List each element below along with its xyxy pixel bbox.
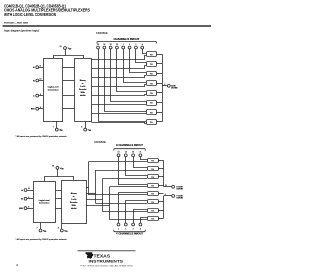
wire TG1 output to bus CD4052B	[158, 168, 164, 170]
wire TG1 output to common bus CD4051B	[157, 63, 163, 65]
pin Y channel 0 in/out CD4052B	[117, 223, 120, 226]
svg-text:11: 11	[139, 152, 141, 154]
wire input B to conversion block CD4052B	[27, 198, 33, 200]
wire decoder output 0 control pair CD4052B	[86, 162, 147, 196]
transmission gate TG1 CD4052B	[148, 167, 159, 171]
wire VDD rail CD4052B	[45, 169, 74, 181]
wire channel 1 to TG6 CD4051B	[105, 49, 147, 112]
wire TG6 output to bus CD4052B	[158, 210, 164, 212]
svg-text:* All inputs are protected by: * All inputs are protected by CMOS prote…	[16, 135, 68, 138]
label VSS pin 8 CD4052B	[58, 228, 68, 234]
svg-text:CHANNELS IN/OUT: CHANNELS IN/OUT	[114, 38, 141, 41]
block logic-level conversion CD4052B	[34, 182, 56, 223]
pin number 12 X channel 0 CD4052B	[118, 152, 120, 154]
wire TG2 output to bus CD4052B	[158, 176, 164, 178]
label Y COM OUT/IN CD4052B	[176, 195, 183, 199]
wire channel 4 to TG3 CD4051B	[124, 49, 147, 83]
svg-text:8: 8	[81, 127, 82, 129]
svg-text:With: With	[72, 204, 77, 207]
wire channel 3 to TG4 CD4051B	[117, 49, 147, 92]
pin number 12 channel 3 CD4051B	[116, 44, 118, 46]
svg-text:OUT/IN: OUT/IN	[176, 198, 183, 200]
svg-text:INSTRUMENTS: INSTRUMENTS	[89, 260, 124, 264]
transmission gate TG0 CD4051B	[147, 52, 157, 57]
label X COM OUT/IN CD4052B	[176, 186, 183, 190]
pin channel 6 in/out CD4051B	[135, 46, 138, 49]
wire input B to conversion block CD4051B	[39, 80, 44, 82]
transmission gate TG5 CD4052B	[148, 200, 159, 205]
transmission gate TG4 CD4051B	[147, 91, 157, 96]
svg-text:TG: TG	[150, 103, 153, 105]
svg-text:INH: INH	[31, 109, 35, 111]
wire TG4 output to bus CD4052B	[158, 193, 164, 195]
svg-text:B: B	[21, 199, 23, 201]
svg-text:3: 3	[165, 194, 166, 196]
svg-text:logic diagram (positive logic): logic diagram (positive logic)	[4, 29, 39, 33]
label input C CD4051B	[33, 96, 35, 98]
pin channel 5 in/out CD4051B	[128, 46, 131, 49]
wire VSS to decoder block CD4052B	[61, 224, 63, 229]
footer TI logo symbol	[86, 252, 94, 259]
wire Y channel 0 to TG4 CD4052B	[119, 193, 148, 224]
pin number 5 channel 5 CD4051B	[129, 44, 130, 46]
svg-text:TEXAS: TEXAS	[94, 254, 111, 259]
header rule	[3, 25, 212, 26]
transmission gate TG1 CD4051B	[147, 62, 157, 67]
bracket over channel pins CD4051B	[97, 42, 156, 44]
svg-text:A: A	[33, 66, 35, 69]
pin channel 7 in/out CD4051B	[141, 46, 144, 49]
pin input B CD4051B	[36, 79, 39, 82]
wire conversion to decoder A CD4051B	[63, 67, 75, 69]
wire decoder output 4 to TG4 control CD4051B	[92, 95, 147, 96]
wire channel 5 to TG2 CD4051B	[130, 49, 147, 73]
svg-text:CD4052B: CD4052B	[94, 140, 106, 144]
pin number 2 Y channel 2 CD4052B	[133, 228, 134, 230]
pin VEE CD4051B	[55, 128, 58, 131]
svg-text:Decoder: Decoder	[79, 89, 87, 91]
wire conversion to decoder INH CD4052B	[56, 208, 62, 210]
svg-text:Binary: Binary	[71, 193, 78, 195]
wire TG6 output to common bus CD4051B	[157, 112, 163, 114]
label input A CD4052B	[21, 189, 23, 192]
wire TG5 output to common bus CD4051B	[157, 102, 163, 104]
svg-text:2: 2	[133, 228, 134, 230]
transmission gate TG5 CD4051B	[147, 101, 157, 106]
pin VDD CD4051B	[64, 47, 67, 50]
pin number 1 Y channel 0 CD4052B	[118, 228, 119, 230]
pin input B CD4052B	[24, 197, 27, 200]
bracket under Y channel pins CD4052B	[114, 230, 145, 232]
svg-text:14: 14	[125, 152, 127, 154]
svg-text:10: 10	[28, 188, 30, 190]
svg-text:CD4051B: CD4051B	[96, 31, 108, 35]
wire TG3 output to common bus CD4051B	[157, 83, 163, 85]
wire VSS to decoder block CD4051B	[85, 122, 87, 129]
svg-text:X CHANNELS IN/OUT: X CHANNELS IN/OUT	[116, 144, 144, 147]
bracket over X channel pins CD4052B	[114, 149, 145, 151]
label VEE pin 7 CD4052B	[37, 228, 47, 234]
svg-text:4: 4	[16, 263, 18, 267]
pin input A CD4051B	[36, 66, 39, 69]
svg-text:TG: TG	[150, 64, 153, 66]
wire X channel 1 to TG2 CD4052B	[126, 157, 148, 176]
footer rule	[78, 249, 136, 252]
pin number 10 CD4051B	[39, 79, 41, 81]
wire TG2 output to common bus CD4051B	[157, 73, 163, 75]
svg-text:C: C	[33, 96, 35, 98]
svg-text:16: 16	[60, 46, 62, 48]
wire TG5 output to bus CD4052B	[158, 201, 164, 203]
wire VEE to conversion block CD4052B	[40, 223, 42, 229]
svg-text:VEE: VEE	[59, 130, 62, 133]
pin X channel 0 in/out CD4052B	[117, 154, 120, 157]
svg-text:TG: TG	[151, 210, 154, 212]
svg-text:Decoder: Decoder	[70, 202, 78, 204]
pin number 14 X channel 1 CD4052B	[125, 152, 127, 154]
svg-text:7: 7	[37, 228, 38, 230]
svg-text:POST OFFICE BOX 655303 • DALLA: POST OFFICE BOX 655303 • DALLAS, TEXAS 7…	[80, 264, 133, 267]
pin Y channel 3 in/out CD4052B	[139, 223, 142, 226]
wire channel 6 to TG1 CD4051B	[136, 49, 147, 63]
svg-text:VSS: VSS	[64, 231, 67, 234]
transmission gate TG4 CD4052B	[148, 192, 159, 196]
wire TG7 output to common bus CD4051B	[157, 121, 163, 123]
wire X channel 3 to TG0 CD4052B	[141, 157, 148, 160]
label input INH CD4051B	[31, 109, 35, 111]
wire conversion to decoder A CD4052B	[56, 190, 62, 192]
pin channel 0 in/out CD4051B	[97, 46, 100, 49]
svg-text:* All inputs are protected by: * All inputs are protected by CMOS prote…	[16, 238, 68, 241]
wire X channel 0 to TG3 CD4052B	[119, 157, 148, 185]
pin number 15 X channel 2 CD4052B	[132, 152, 134, 154]
block binary 1-of-4 decoder CD4052B	[62, 181, 87, 224]
pin Y channel 2 in/out CD4052B	[132, 223, 135, 226]
transmission gate TG7 CD4051B	[147, 120, 157, 125]
svg-text:TG: TG	[150, 83, 153, 85]
pin input A CD4052B	[24, 189, 27, 192]
pin number 9 CD4051B	[40, 94, 41, 96]
pin number 4 Y channel 3 CD4052B	[140, 228, 141, 230]
pin Y channel 1 in/out CD4052B	[124, 223, 127, 226]
block logic-level conversion CD4051B	[44, 59, 63, 122]
svg-text:SCHS421 – MAY 2002: SCHS421 – MAY 2002	[4, 21, 29, 24]
svg-text:12: 12	[118, 152, 120, 154]
wire conversion to decoder B CD4052B	[56, 198, 62, 200]
wire X channel 2 to TG1 CD4052B	[134, 157, 148, 168]
pin number 14 channel 1 CD4051B	[103, 44, 105, 46]
X common bus CD4052B	[163, 160, 165, 187]
pin number 15 channel 2 CD4051B	[110, 44, 112, 46]
wire channel 7 to TG0 CD4051B	[143, 49, 147, 54]
wire Y channel 1 to TG5 CD4052B	[126, 201, 148, 224]
wire input INH to conversion block CD4052B	[27, 208, 33, 210]
wire Y channel 2 to TG6 CD4052B	[134, 210, 148, 224]
wire VDD rail CD4051B	[54, 49, 84, 58]
wire decoder output 5 to TG5 control CD4051B	[92, 104, 147, 106]
svg-text:VDD: VDD	[60, 168, 65, 171]
wire TG7 output to bus CD4052B	[158, 218, 164, 220]
svg-text:7: 7	[53, 127, 54, 129]
transmission gate TG7 CD4052B	[148, 217, 159, 221]
svg-text:8: 8	[58, 228, 59, 230]
svg-text:4: 4	[140, 228, 141, 230]
pin VDD CD4052B	[56, 166, 59, 169]
wire conversion to decoder INH CD4051B	[63, 108, 75, 110]
pin input INH CD4051B	[36, 107, 39, 110]
pin number 13 channel 0 CD4051B	[97, 44, 99, 46]
svg-text:16: 16	[52, 166, 54, 168]
pin channel 3 in/out CD4051B	[116, 46, 119, 49]
svg-text:6: 6	[28, 206, 29, 208]
svg-text:B: B	[33, 80, 35, 82]
svg-text:VEE: VEE	[43, 231, 46, 234]
pin number 5 Y channel 1 CD4052B	[125, 228, 126, 230]
wire conversion to decoder B CD4051B	[63, 80, 75, 82]
pin input INH CD4052B	[24, 207, 27, 210]
label COM OUT/IN CD4051B	[171, 85, 178, 89]
wire decoder output 7 to TG7 control CD4051B	[92, 123, 147, 124]
pin X channel 3 in/out CD4052B	[139, 154, 142, 157]
pin number 1 channel 4 CD4051B	[123, 44, 124, 46]
pin VEE CD4052B	[39, 229, 42, 232]
svg-text:15: 15	[132, 152, 134, 154]
transmission gate TG3 CD4051B	[147, 81, 157, 86]
wire decoder output 2 to TG2 control CD4051B	[92, 76, 147, 78]
transmission gate TG2 CD4051B	[147, 72, 157, 76]
label VEE pin 7 CD4051B	[53, 127, 63, 133]
svg-text:With: With	[81, 91, 86, 94]
svg-text:WITH LOGIC-LEVEL CONVERSION: WITH LOGIC-LEVEL CONVERSION	[4, 12, 56, 18]
Y common bus CD4052B	[163, 196, 165, 219]
svg-text:1-of-8: 1-of-8	[80, 86, 85, 88]
svg-text:Logic-Level: Logic-Level	[39, 200, 50, 202]
svg-text:Inhibit: Inhibit	[71, 207, 77, 210]
svg-text:TG: TG	[150, 122, 153, 124]
pin input C CD4051B	[36, 94, 39, 97]
wire channel 0 to TG7 CD4051B	[99, 49, 147, 122]
wire channel 2 to TG5 CD4051B	[111, 49, 147, 102]
wire decoder output 1 to TG1 control CD4051B	[92, 66, 147, 69]
svg-text:VSS: VSS	[88, 130, 91, 133]
wire Y channel 3 to TG7 CD4052B	[141, 218, 148, 224]
label input B CD4052B	[21, 199, 23, 201]
svg-text:1-of-4: 1-of-4	[71, 198, 77, 201]
label VSS pin 8 CD4051B	[81, 127, 91, 133]
label input A CD4051B	[33, 66, 35, 69]
wire input A to conversion block CD4052B	[27, 190, 33, 192]
wire bus to COM pin CD4051B	[162, 85, 167, 87]
wire decoder output 3 control pair CD4052B	[86, 187, 147, 220]
label input B CD4051B	[33, 80, 35, 82]
pin channel 1 in/out CD4051B	[103, 46, 106, 49]
pin number 2 channel 6 CD4051B	[135, 44, 136, 46]
wire decoder output 1 control pair CD4052B	[86, 170, 147, 203]
svg-text:13: 13	[165, 185, 167, 187]
wire TG0 output to bus CD4052B	[158, 160, 164, 162]
svg-text:TG: TG	[150, 93, 153, 95]
wire input A to conversion block CD4051B	[39, 67, 44, 69]
svg-text:Logic-Level: Logic-Level	[48, 87, 59, 89]
pin COM OUT/IN CD4051B	[167, 84, 170, 87]
svg-text:Binary: Binary	[80, 80, 87, 82]
svg-text:1: 1	[118, 228, 119, 230]
pin VSS CD4052B	[60, 229, 63, 232]
wire TG4 output to common bus CD4051B	[157, 92, 163, 94]
svg-text:TG: TG	[150, 54, 153, 56]
pin X channel 1 in/out CD4052B	[124, 154, 127, 157]
pin number 10 CD4052B	[28, 188, 30, 190]
svg-text:5: 5	[125, 228, 126, 230]
pin channel 2 in/out CD4051B	[109, 46, 112, 49]
transmission gate TG6 CD4051B	[147, 110, 157, 115]
svg-text:Conversion: Conversion	[48, 89, 59, 91]
wire X bus to X COM pin CD4052B	[164, 186, 172, 188]
wire decoder output 0 to TG0 control CD4051B	[92, 56, 147, 60]
transmission gate TG0 CD4052B	[148, 159, 159, 163]
pin VSS CD4051B	[84, 128, 87, 131]
transmission gate TG2 CD4052B	[148, 175, 159, 180]
svg-text:3: 3	[164, 84, 165, 86]
svg-text:VDD: VDD	[68, 48, 73, 51]
svg-text:to: to	[73, 195, 76, 198]
pin number 4 channel 7 CD4051B	[142, 44, 143, 46]
block binary 1-of-8 decoder CD4051B	[75, 59, 92, 122]
wire decoder output 6 to TG6 control CD4051B	[92, 113, 147, 115]
transmission gate TG3 CD4052B	[148, 184, 159, 188]
wire decoder output 3 to TG3 control CD4051B	[92, 85, 147, 87]
wire decoder output 2 control pair CD4052B	[86, 178, 147, 211]
pin number 9 CD4052B	[28, 197, 29, 199]
wire input INH to conversion block CD4051B	[39, 108, 44, 110]
wire TG0 output to common bus CD4051B	[157, 54, 163, 56]
svg-text:Y CHANNELS IN/OUT: Y CHANNELS IN/OUT	[116, 233, 144, 236]
transmission gate TG6 CD4052B	[148, 209, 159, 213]
label input INH CD4052B	[19, 208, 23, 210]
svg-text:Conversion: Conversion	[39, 203, 50, 205]
pin number 11 CD4051B	[39, 65, 41, 67]
svg-text:Inhibit: Inhibit	[80, 94, 86, 97]
wire TG3 output to bus CD4052B	[158, 185, 164, 187]
wire conversion to decoder C CD4051B	[63, 95, 75, 97]
svg-text:A: A	[21, 189, 23, 192]
pin number 6 CD4052B	[28, 206, 29, 208]
wire Y bus to Y COM pin CD4052B	[164, 195, 172, 197]
wire input C to conversion block CD4051B	[39, 95, 44, 97]
pin X channel 2 in/out CD4052B	[132, 154, 135, 157]
svg-text:OUT/IN: OUT/IN	[176, 189, 183, 191]
pin channel 4 in/out CD4051B	[122, 46, 125, 49]
svg-text:OUT/IN: OUT/IN	[171, 88, 178, 90]
pin X COM OUT/IN CD4052B	[172, 185, 175, 188]
pin Y COM OUT/IN CD4052B	[172, 195, 175, 198]
svg-text:to: to	[82, 82, 85, 85]
pin number 11 X channel 3 CD4052B	[139, 152, 141, 154]
common output bus CD4051B	[162, 54, 164, 122]
pin number 6 CD4051B	[40, 107, 41, 109]
svg-text:INH: INH	[19, 208, 23, 210]
wire VEE to conversion block CD4051B	[56, 121, 58, 128]
